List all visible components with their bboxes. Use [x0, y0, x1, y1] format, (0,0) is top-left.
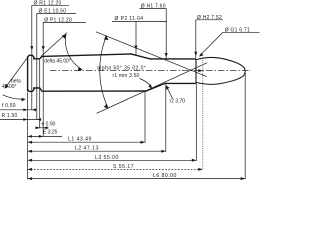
- dim label P1 line + witness: [43, 22, 86, 136]
- L6 witness: [244, 73, 246, 180]
- svg-text:L2 47.13: L2 47.13: [75, 146, 99, 152]
- delta angle arc: [65, 34, 82, 69]
- bullet ogive top: [196, 57, 245, 71]
- S dotted witness: [202, 58, 204, 170]
- dim L1: [28, 141, 145, 143]
- dim label R1 line + witness: [32, 5, 69, 110]
- centerline: [50, 70, 251, 72]
- beta bevel extension line: [5, 56, 29, 88]
- svg-text:r1 min 3.50: r1 min 3.50: [113, 73, 140, 79]
- head witness long (head face): [27, 92, 29, 179]
- svg-text:Ø H2 7.52: Ø H2 7.52: [197, 15, 222, 21]
- case outline top: [28, 54, 196, 91]
- dim label H1 line + witness: [140, 9, 167, 59]
- bullet ogive bottom: [196, 71, 245, 84]
- L3 witness: [195, 84, 197, 161]
- dim L3: [28, 159, 197, 161]
- dim e: [36, 127, 49, 129]
- svg-text:S 55.17: S 55.17: [113, 164, 134, 170]
- svg-text:Ø P1 12.20: Ø P1 12.20: [44, 18, 72, 24]
- beta angle arc: [3, 95, 25, 99]
- case mouth: [195, 59, 197, 83]
- svg-text:R 1.50: R 1.50: [2, 113, 18, 119]
- alpha angle arc: [100, 36, 108, 108]
- L1 witness: [144, 92, 146, 143]
- svg-text:r2 3.70: r2 3.70: [170, 99, 186, 105]
- head witness e (groove front): [39, 60, 41, 129]
- dim S dashed: [28, 168, 203, 170]
- svg-text:alpha 50° 35 02.0°: alpha 50° 35 02.0°: [97, 66, 146, 72]
- dim E: [28, 135, 62, 137]
- L2 witness: [165, 84, 167, 152]
- svg-text:delta 45.00°: delta 45.00°: [44, 58, 71, 64]
- svg-text:E 3.25: E 3.25: [43, 130, 58, 136]
- dim label G1 line + leader: [200, 32, 260, 55]
- case outline bottom: [28, 83, 196, 91]
- r1 leader: [140, 79, 152, 88]
- S point arrow on centerline: [198, 69, 203, 72]
- svg-text:L6 80.00: L6 80.00: [153, 173, 177, 179]
- r2 leader: [167, 87, 173, 99]
- dim L2: [28, 150, 166, 152]
- delta bevel extension line: [41, 33, 67, 57]
- svg-text:L1 43.49: L1 43.49: [68, 137, 92, 143]
- svg-text:L3 55.00: L3 55.00: [95, 155, 119, 161]
- shoulder cone extension bottom: [97, 63, 207, 114]
- shoulder cone extension top: [96, 32, 207, 77]
- svg-text:Ø R1 12.20: Ø R1 12.20: [34, 0, 62, 6]
- svg-text:Ø G1 6.71: Ø G1 6.71: [225, 27, 250, 33]
- svg-text:45.00°: 45.00°: [2, 84, 17, 90]
- svg-text:Ø E1 10.50: Ø E1 10.50: [39, 9, 67, 15]
- svg-text:Ø H1 7.60: Ø H1 7.60: [141, 4, 166, 10]
- dim f: [0, 109, 34, 111]
- svg-text:e 0.90: e 0.90: [42, 122, 56, 128]
- dim label P2 line + witness: [112, 22, 167, 56]
- svg-text:Ø P2 11.04: Ø P2 11.04: [115, 16, 144, 22]
- dim L6: [28, 178, 246, 180]
- dim R: [0, 119, 40, 121]
- svg-text:f 0.50: f 0.50: [2, 103, 16, 109]
- dim label E1 line + witness: [37, 13, 76, 119]
- dim label H2 line + witness: [196, 20, 223, 58]
